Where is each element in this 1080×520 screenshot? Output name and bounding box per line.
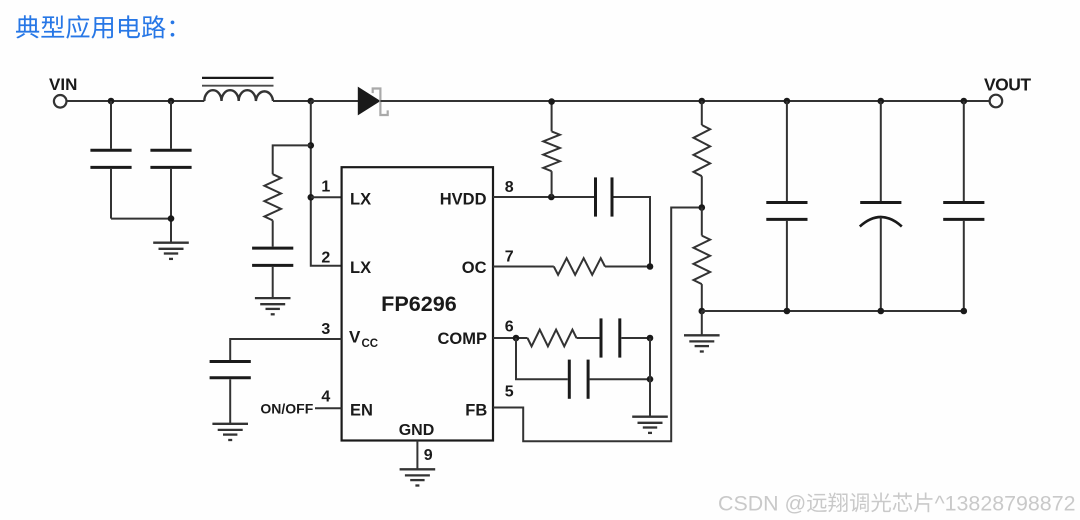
resistor R2 HVDD pullup [551, 102, 553, 132]
capacitor C7 COMP lower [568, 360, 571, 399]
svg-text:FP6296: FP6296 [381, 291, 457, 316]
wire pin 7 OC [493, 266, 554, 268]
svg-text:EN: EN [350, 402, 373, 420]
svg-text:VIN: VIN [49, 75, 77, 94]
wire R3 to node line [605, 266, 650, 268]
ground Vcc cap [212, 423, 248, 425]
wire diode to VOUT rail [380, 100, 989, 102]
node top rail junction C1 [108, 98, 115, 105]
node C8 top junction [784, 98, 791, 105]
ground snubber [255, 297, 291, 299]
node COMP junction [513, 335, 520, 342]
node C7 junction [647, 376, 654, 383]
svg-text:COMP: COMP [438, 330, 488, 348]
node C10 top junction [961, 98, 968, 105]
svg-text:FB: FB [465, 402, 487, 420]
svg-text:V: V [349, 328, 361, 347]
svg-text:HVDD: HVDD [440, 190, 487, 208]
wire pin 3 Vcc [230, 339, 341, 360]
wire R1 to C3 [272, 220, 274, 246]
node C6 junction [647, 335, 654, 342]
wire C3 to ground [272, 267, 274, 298]
capacitor C10 output [963, 101, 965, 201]
wire LX vertical [311, 101, 342, 266]
svg-text:9: 9 [424, 447, 433, 464]
svg-text:OC: OC [462, 259, 487, 277]
wire inductor to LX node [273, 100, 311, 102]
op-amp U1 FP6296 box [342, 167, 493, 440]
wire snubber branch [273, 145, 311, 174]
wire R4 to C6 [577, 337, 600, 339]
svg-text:2: 2 [321, 250, 330, 267]
title 典型应用电路 [16, 15, 174, 39]
svg-text:CC: CC [362, 338, 379, 350]
wire node line to ground [649, 338, 651, 417]
capacitor C8 output [786, 101, 788, 201]
resistor R4 COMP [528, 330, 577, 347]
ground feedback divider [684, 334, 720, 336]
capacitor C6 COMP [600, 318, 603, 357]
svg-text:LX: LX [350, 190, 371, 208]
svg-text:8: 8 [505, 179, 514, 196]
wire LX node to diode [311, 100, 359, 102]
wire C7 to node line [590, 378, 650, 380]
node top rail junction C2 [168, 98, 175, 105]
node divider mid junction [699, 204, 706, 211]
resistor R5 feedback top [701, 101, 703, 125]
node pin1 junction [308, 194, 315, 201]
node divider top junction [699, 98, 706, 105]
node C9 top junction [878, 98, 885, 105]
capacitor C3 snubber [252, 247, 293, 250]
svg-text:5: 5 [505, 384, 514, 401]
svg-text:CSDN @: CSDN @ [718, 492, 806, 516]
node R2 top rail junction [548, 98, 555, 105]
svg-text:7: 7 [505, 248, 514, 265]
node C9 bottom junction [878, 308, 885, 315]
capacitor C9 output polarized [880, 101, 882, 201]
ground input caps [153, 242, 189, 244]
wire pin 4 EN stub [315, 407, 342, 409]
wire output bottom rail [702, 310, 964, 312]
wire pin 5 FB route [493, 208, 702, 442]
node C10 bottom junction [961, 308, 968, 315]
resistor R3 OC [554, 258, 605, 275]
wire input caps bottom [111, 219, 171, 243]
resistor R1 snubber [264, 174, 281, 220]
svg-text:^13828798872: ^13828798872 [935, 492, 1076, 516]
node C8 bottom junction [784, 308, 791, 315]
capacitor C5 HVDD [594, 177, 597, 216]
terminal VIN [54, 95, 67, 108]
node divider bottom junction [699, 308, 706, 315]
wire pin 6 COMP [493, 337, 528, 339]
svg-text:VOUT: VOUT [984, 74, 1031, 94]
capacitor C2 input [170, 101, 172, 149]
svg-text:3: 3 [321, 321, 330, 338]
wire C6 to node line [621, 337, 650, 339]
node LX top junction [308, 98, 315, 105]
wire pin 8 HVDD [493, 196, 594, 198]
node input caps bottom junction [168, 215, 175, 222]
ground pin 9 [400, 468, 436, 470]
wire C5 to node line [614, 197, 651, 267]
svg-text:4: 4 [321, 389, 330, 406]
svg-text:1: 1 [321, 178, 330, 195]
wire C4 to ground [229, 379, 231, 424]
diode D1 schottky [358, 88, 379, 115]
svg-text:GND: GND [399, 422, 435, 439]
wire COMP lower branch [516, 338, 568, 379]
inductor L1 [202, 77, 274, 79]
wire VIN to inductor [66, 100, 205, 102]
node OC junction [647, 263, 654, 270]
node snubber branch junction [308, 142, 315, 149]
svg-text:6: 6 [505, 319, 514, 336]
resistor R6 feedback bottom [701, 208, 703, 236]
node HVDD junction [548, 194, 555, 201]
terminal VOUT [990, 95, 1003, 108]
wire divider to ground [701, 311, 703, 335]
svg-text:LX: LX [350, 259, 371, 277]
capacitor C4 Vcc [210, 360, 251, 363]
ground node line [632, 416, 668, 418]
svg-text:ON/OFF: ON/OFF [260, 401, 313, 417]
wire pin 9 GND [416, 441, 418, 470]
wire pin 1 stub [311, 196, 342, 198]
capacitor C1 input [110, 101, 112, 149]
